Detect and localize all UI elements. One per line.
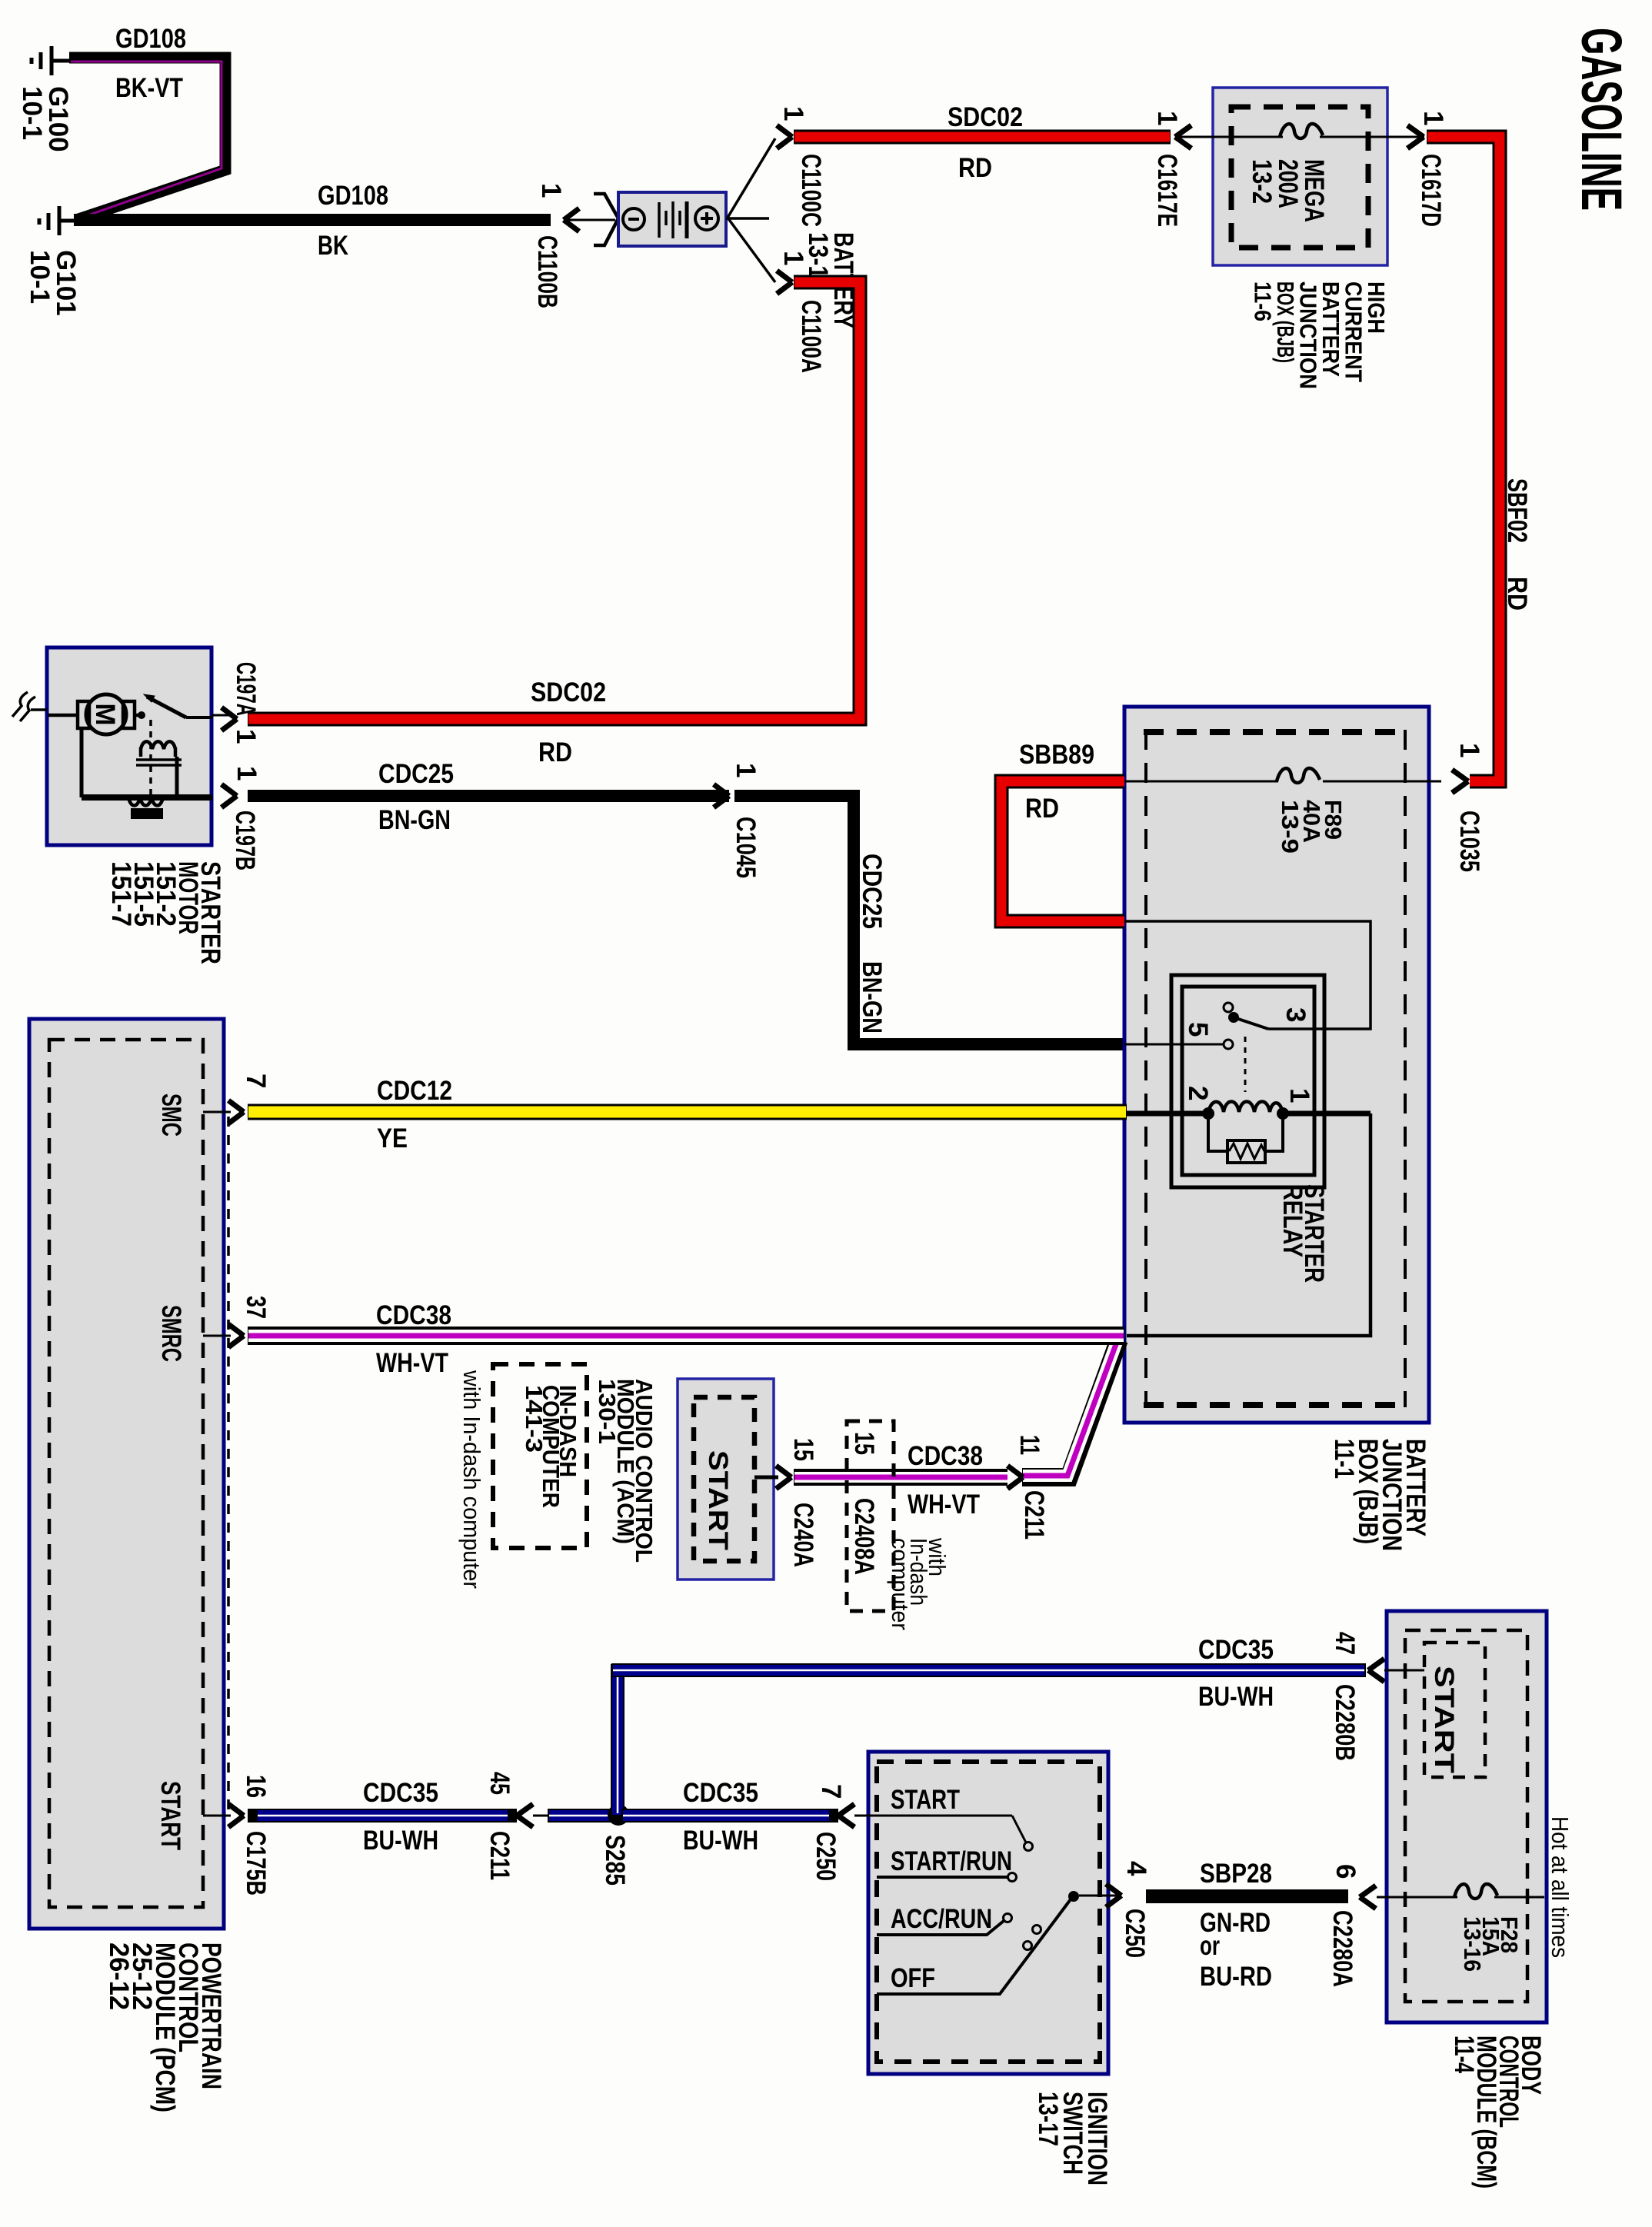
wire (fork up to C1100C) — [728, 138, 775, 218]
svg-text:RD: RD — [1502, 577, 1532, 611]
svg-text:GASOLINE: GASOLINE — [1570, 28, 1634, 211]
wire CDC25 BN-GN (C197B to C1045) — [248, 790, 729, 802]
svg-text:RD: RD — [958, 153, 992, 183]
relay coil — [1208, 1102, 1283, 1114]
svg-text:CDC35: CDC35 — [363, 1778, 438, 1808]
wire CDC35 (C211 to S285) — [533, 1815, 550, 1817]
high current battery junction box MEGA — [1213, 88, 1387, 265]
connector arrow C197B — [221, 784, 237, 807]
wire SDC02 RD (C1100A to C197A) — [248, 282, 860, 719]
connector arrow C197A — [211, 714, 231, 717]
solenoid switch blade (starter) — [138, 711, 145, 719]
ground G101 — [39, 206, 76, 235]
svg-text:4: 4 — [1121, 1861, 1151, 1876]
svg-text:2: 2 — [1183, 1086, 1213, 1100]
svg-text:SBF02: SBF02 — [1502, 478, 1532, 543]
svg-text:GD108: GD108 — [115, 24, 186, 54]
svg-text:1: 1 — [231, 729, 261, 744]
svg-text:WH-VT: WH-VT — [376, 1348, 448, 1378]
wire (battery + to fork point) — [726, 217, 769, 220]
svg-text:BK: BK — [318, 231, 348, 261]
connector arrow pin 37 (SMRC) — [228, 1324, 244, 1347]
powertrain control module PCM — [29, 1019, 224, 1929]
svg-text:CDC38: CDC38 — [908, 1441, 983, 1471]
wire (S285 to C250 pin 7) — [621, 1809, 838, 1823]
connector arrow C1617D — [1407, 125, 1424, 148]
holding winding (starter) — [128, 797, 163, 806]
svg-text:M: M — [90, 703, 120, 725]
svg-text:SBB89: SBB89 — [1019, 740, 1094, 770]
body control module BCM — [1387, 1611, 1547, 2022]
connector arrow C1035 — [1452, 770, 1468, 793]
dashed link (starter solenoid) — [149, 720, 152, 795]
svg-text:C211: C211 — [485, 1831, 515, 1880]
chassis ground (starter motor) — [12, 692, 47, 721]
splice S285 — [608, 1804, 629, 1826]
battery junction box BJB — [1124, 707, 1429, 1423]
svg-text:START: START — [155, 1781, 185, 1850]
dashed option line (SMC to CDC35 net) — [227, 1117, 230, 1816]
connector arrow C211 pin 45 — [517, 1804, 533, 1827]
wire (F89 fuse line) — [1124, 781, 1441, 783]
svg-text:47: 47 — [1330, 1632, 1360, 1655]
wire (fork down to C1100A) — [728, 218, 775, 282]
starter relay outer case — [1171, 975, 1324, 1187]
svg-text:RD: RD — [538, 737, 572, 767]
svg-text:C250: C250 — [811, 1832, 841, 1881]
svg-text:1: 1 — [731, 763, 761, 777]
svg-text:7: 7 — [816, 1784, 846, 1799]
svg-text:C211: C211 — [1019, 1490, 1049, 1540]
svg-text:CDC25: CDC25 — [378, 759, 454, 789]
svg-text:1: 1 — [231, 766, 261, 781]
svg-text:ACC/RUN: ACC/RUN — [891, 1904, 992, 1934]
wire (C1100B to battery fork) — [564, 219, 615, 221]
svg-text:BU-WH: BU-WH — [1198, 1682, 1274, 1712]
svg-text:S285: S285 — [600, 1835, 630, 1886]
svg-text:YE: YE — [377, 1123, 408, 1153]
wire CDC12 YE (SMC to relay coil) — [248, 1104, 1127, 1120]
svg-text:1: 1 — [1454, 743, 1484, 757]
ignition ACC/RUN contact — [877, 1921, 1004, 1935]
relay switch blade — [1224, 1003, 1233, 1012]
svg-text:BU-WH: BU-WH — [683, 1826, 758, 1856]
pin SMRC line — [203, 1335, 231, 1337]
svg-text:C1617E: C1617E — [1152, 154, 1182, 227]
wire (SBB89 to relay contact 3) — [1124, 921, 1371, 1029]
connector arrow C2280B — [1368, 1659, 1384, 1682]
ground G100 — [32, 46, 69, 75]
fuse F89 40A 13-9 — [1278, 769, 1323, 794]
svg-text:7: 7 — [241, 1074, 271, 1088]
wire SBB89 RD — [1001, 781, 1124, 921]
svg-text:BN-GN: BN-GN — [857, 961, 887, 1034]
svg-text:15: 15 — [788, 1438, 818, 1461]
battery BATTERY 13-1 — [618, 192, 726, 246]
svg-text:1: 1 — [536, 183, 566, 198]
pin START line — [203, 1815, 231, 1817]
svg-text:C1100C: C1100C — [796, 154, 826, 227]
svg-text:C1045: C1045 — [731, 817, 761, 878]
ignition OFF contact and blade — [877, 1899, 1071, 1994]
wire CDC38 branch (junction to C211 pin 11) — [1022, 1338, 1119, 1477]
svg-text:C250: C250 — [1120, 1909, 1150, 1958]
wire SBP28 GN-RD (C250 to C2280A) — [1146, 1889, 1348, 1903]
svg-text:5: 5 — [1183, 1022, 1213, 1037]
svg-text:3: 3 — [1281, 1007, 1311, 1022]
pin line (BCM START to C2280B) — [1384, 1669, 1424, 1672]
svg-text:C197B: C197B — [230, 811, 260, 870]
svg-text:11: 11 — [1014, 1435, 1044, 1455]
connector arrow C1045 — [714, 784, 729, 807]
svg-text:C240A: C240A — [788, 1503, 818, 1567]
svg-text:1: 1 — [1284, 1088, 1314, 1103]
wire CDC25 BN-GN (C1045 to BJB pin 5) — [734, 796, 1127, 1044]
svg-text:C2280A: C2280A — [1327, 1910, 1357, 1987]
motor M (starter) — [86, 694, 126, 734]
svg-text:C2280B: C2280B — [1330, 1684, 1360, 1761]
svg-text:START: START — [703, 1450, 733, 1550]
junction node (relay pin 2) — [1202, 1107, 1214, 1120]
svg-text:1: 1 — [778, 106, 808, 121]
connector arrow C1100B — [564, 208, 579, 231]
solenoid coil (starter) — [141, 741, 175, 757]
connector arrow C1100C — [777, 125, 792, 148]
svg-text:45: 45 — [485, 1772, 515, 1795]
connector arrow C250 pin 4 — [1106, 1884, 1121, 1907]
relay suppression resistor — [1208, 1113, 1227, 1151]
svg-text:SBP28: SBP28 — [1200, 1859, 1272, 1889]
svg-text:BU-WH: BU-WH — [363, 1826, 438, 1856]
svg-text:RD: RD — [1025, 794, 1059, 824]
svg-text:1: 1 — [778, 251, 808, 265]
svg-text:C2408A: C2408A — [849, 1498, 879, 1575]
wire GD108 BK (G101 to battery C1100B) — [74, 214, 551, 226]
pin line (ACM START) — [754, 1476, 778, 1480]
wire CDC38 WH-VT (ACM to C211) — [794, 1469, 1008, 1486]
ignition START contact — [1012, 1816, 1026, 1843]
ignition START/RUN contact — [877, 1876, 1008, 1879]
wire SDC02 RD (C1100C to C1617E) — [794, 130, 1171, 145]
wire (BCM fuse line) — [1377, 1896, 1457, 1899]
svg-text:C1617D: C1617D — [1416, 154, 1446, 227]
wire links inside starter — [82, 728, 212, 797]
connector arrow C1617E — [1175, 125, 1191, 148]
svg-text:C1035: C1035 — [1454, 811, 1484, 872]
svg-text:BK-VT: BK-VT — [115, 73, 183, 103]
audio control module ACM — [678, 1379, 774, 1580]
svg-text:OFF: OFF — [891, 1963, 935, 1993]
svg-text:with In-dash computer: with In-dash computer — [458, 1370, 485, 1589]
wire CDC38 WH-VT (SMRC to BJB) — [248, 1327, 1124, 1345]
svg-text:SMC: SMC — [156, 1094, 186, 1137]
fuse MEGA 200A — [1280, 124, 1323, 138]
svg-text:CDC35: CDC35 — [1198, 1635, 1274, 1665]
svg-text:or: or — [1200, 1931, 1220, 1961]
BCM START box — [1424, 1643, 1485, 1777]
connector C2408A (dashed) — [847, 1421, 894, 1611]
svg-text:START: START — [1429, 1666, 1459, 1773]
fuse F28 15A 13-16 — [1454, 1884, 1497, 1899]
svg-text:SMRC: SMRC — [156, 1305, 186, 1362]
svg-text:CDC25: CDC25 — [857, 854, 887, 929]
svg-text:15: 15 — [849, 1432, 879, 1455]
svg-text:START/RUN: START/RUN — [891, 1846, 1012, 1876]
svg-text:CDC35: CDC35 — [683, 1778, 758, 1808]
relay coil output to CDC38 — [1283, 1111, 1371, 1117]
svg-text:BU-RD: BU-RD — [1200, 1962, 1272, 1992]
connector arrow pin 16 (START) — [228, 1804, 244, 1827]
in-dash computer box — [493, 1364, 587, 1548]
wire GD108 BK-VT (G100 to G101) — [69, 58, 225, 220]
svg-text:START: START — [891, 1785, 960, 1815]
svg-text:CDC12: CDC12 — [377, 1076, 452, 1106]
svg-text:CDC38: CDC38 — [376, 1300, 451, 1330]
relay coil feed (CDC12 inside BJB) — [1124, 1111, 1208, 1117]
connector arrow C240A — [776, 1466, 791, 1489]
svg-text:C1100B: C1100B — [532, 235, 562, 308]
connector arrow pin 7 (SMC) — [228, 1100, 244, 1123]
ignition switch box — [868, 1752, 1108, 2074]
wire CDC35 (S285 up to BCM corner) — [611, 1664, 1366, 1815]
svg-text:SDC02: SDC02 — [531, 677, 606, 707]
connector arrow C211 pin 11 — [1008, 1466, 1023, 1489]
relay pin 5 contact — [1124, 1044, 1223, 1046]
relay actuator dashed link — [1244, 1037, 1247, 1092]
svg-text:SDC02: SDC02 — [948, 102, 1023, 132]
wire (through MEGA fuse) — [1175, 136, 1283, 138]
svg-text:C1100A: C1100A — [796, 300, 826, 373]
svg-text:37: 37 — [241, 1296, 271, 1319]
wire SBF02 RD (C1617D to C1035) — [1427, 137, 1500, 781]
svg-text:BN-GN: BN-GN — [378, 805, 451, 835]
svg-text:1: 1 — [1418, 111, 1448, 125]
svg-text:6: 6 — [1331, 1864, 1361, 1879]
connector arrow C250 pin 7 — [838, 1804, 854, 1827]
junction node (relay pin 1) — [1277, 1107, 1289, 1120]
battery fork left — [594, 194, 618, 245]
connector arrow C2280A — [1360, 1886, 1376, 1909]
wire CDC35 BU-WH (C175B to C211 pin 45) — [248, 1809, 517, 1823]
starter motor box — [47, 647, 211, 845]
svg-text:Hot at all times: Hot at all times — [1547, 1816, 1574, 1958]
wire (C250 to ignition switch) — [854, 1815, 1012, 1817]
svg-text:WH-VT: WH-VT — [908, 1490, 980, 1520]
svg-text:16: 16 — [241, 1775, 271, 1798]
wire (ignition pivot to C250 pin 4) — [1079, 1895, 1120, 1897]
svg-text:C175B: C175B — [241, 1831, 271, 1896]
svg-text:C197A: C197A — [231, 662, 261, 716]
connector arrow C1100A — [777, 271, 792, 294]
svg-text:1: 1 — [1152, 111, 1182, 125]
svg-text:GD108: GD108 — [318, 181, 388, 211]
pin SMC line — [203, 1111, 231, 1113]
